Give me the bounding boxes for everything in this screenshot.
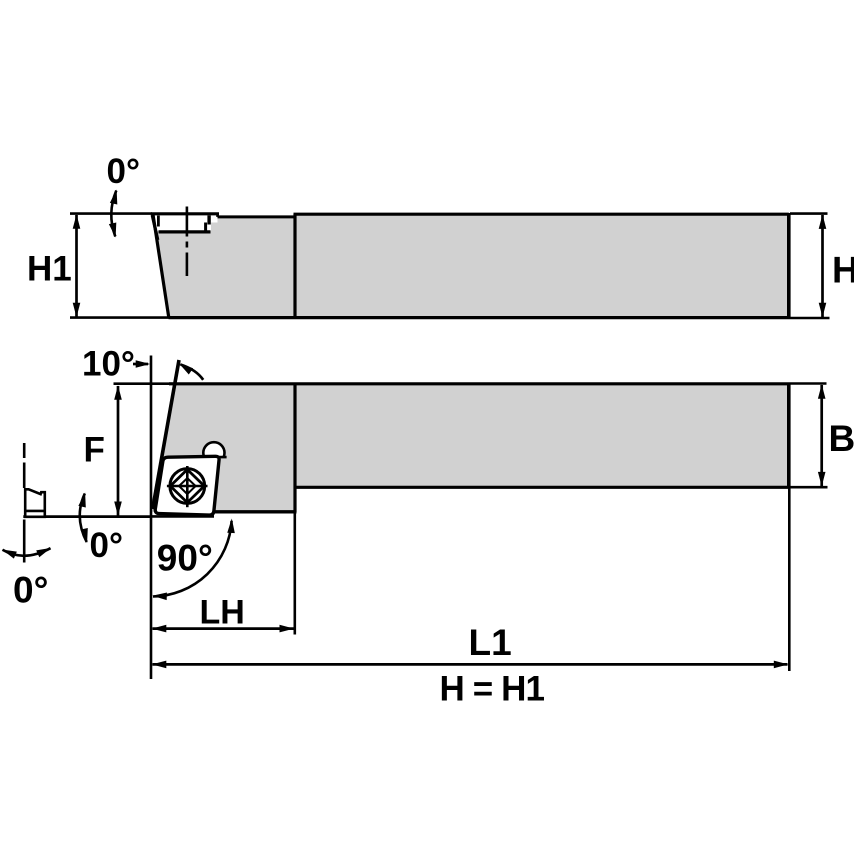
svg-text:0°: 0° — [107, 152, 140, 191]
svg-text:H: H — [832, 250, 854, 291]
svg-text:0°: 0° — [90, 526, 123, 565]
svg-text:LH: LH — [200, 594, 245, 632]
svg-text:10°: 10° — [82, 345, 135, 384]
svg-text:F: F — [84, 431, 105, 470]
svg-text:90°: 90° — [157, 537, 213, 578]
svg-text:L1: L1 — [469, 622, 512, 663]
svg-text:B: B — [829, 418, 854, 459]
svg-text:H = H1: H = H1 — [440, 669, 545, 708]
svg-text:H1: H1 — [27, 250, 72, 289]
svg-text:0°: 0° — [13, 569, 48, 610]
